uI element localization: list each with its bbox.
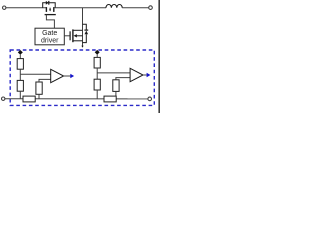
svg-text:driver: driver [41, 37, 59, 44]
terminal (return, bottom-right) [148, 97, 152, 101]
wire [96, 68, 98, 79]
terminal (input, top-left) [2, 6, 5, 9]
wire switch node vertical [82, 8, 84, 47]
gate driver U1 [35, 28, 64, 45]
wire [96, 90, 98, 99]
inductor L1 [106, 4, 122, 7]
op-amp U2 comparator left [51, 69, 64, 82]
diode D2 body diode of Q2 [83, 24, 89, 42]
node output B (blue) [147, 73, 151, 77]
resistor R6 [94, 79, 100, 90]
wire top rail right [122, 7, 149, 9]
wire [19, 55, 21, 59]
wire [38, 94, 40, 98]
resistor R5 [94, 57, 100, 68]
wire bottom rail [5, 98, 148, 100]
resistor R2 [17, 80, 23, 91]
wire top rail left [6, 7, 46, 9]
wire node line to comparator [20, 73, 50, 75]
svg-text:Gate: Gate [42, 30, 57, 37]
node port P2 (right cell tap) [95, 50, 100, 55]
wire [39, 79, 51, 82]
dashed sensing block boundary [10, 50, 154, 105]
wire output [64, 75, 71, 77]
transistor Q1 high-side MOSFET [45, 7, 56, 15]
transistor Q2 low-side MOSFET [64, 29, 82, 42]
resistor R7 [113, 80, 119, 92]
terminal (output, top-right) [149, 6, 153, 10]
op-amp U3 comparator right [130, 68, 143, 81]
node arrow to ground return [81, 46, 83, 48]
resistor R1 [17, 59, 23, 70]
node output A (blue) [70, 74, 74, 78]
diode D1 body diode of Q1 [43, 1, 56, 8]
wire node line to comparator [97, 72, 130, 74]
resistor R4 (horizontal on return rail) [23, 96, 35, 102]
wire [115, 91, 117, 99]
terminal (return, bottom-left) [2, 97, 5, 100]
wire Q1 gate to gate driver [46, 15, 54, 29]
node port P1 (left cell tap) [18, 50, 23, 55]
wire top rail middle [54, 7, 106, 9]
resistor R8 (horizontal on return rail) [104, 96, 116, 102]
wire [96, 55, 98, 58]
resistor R3 [36, 82, 42, 94]
wire [19, 69, 21, 80]
wire [116, 78, 130, 80]
wire [19, 91, 21, 99]
wire output [143, 74, 147, 76]
